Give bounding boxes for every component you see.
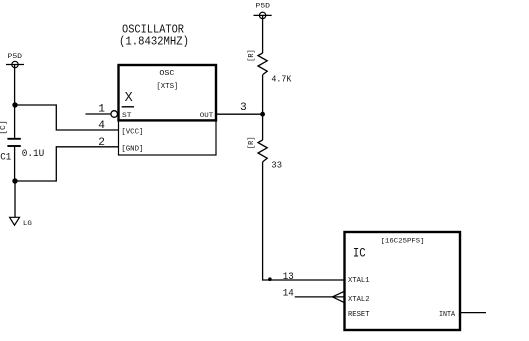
svg-text:RESET: RESET	[348, 311, 370, 319]
svg-text:X: X	[125, 91, 133, 106]
svg-text:XTAL1: XTAL1	[348, 277, 370, 285]
svg-text:C1: C1	[0, 152, 11, 164]
svg-text:(1.8432MHZ): (1.8432MHZ)	[119, 35, 189, 49]
svg-text:OUT: OUT	[200, 112, 213, 119]
svg-text:[XTS]: [XTS]	[156, 83, 178, 91]
svg-text:[R]: [R]	[248, 49, 256, 62]
svg-text:[GND]: [GND]	[121, 146, 143, 154]
resistor R 33	[258, 140, 267, 162]
svg-text:[VCC]: [VCC]	[121, 128, 143, 136]
svg-text:IC: IC	[353, 246, 366, 261]
power P5D (left)	[6, 53, 24, 68]
wire junction to pin 2 (GND)	[15, 147, 118, 181]
svg-text:13: 13	[283, 272, 294, 283]
wire P5D to C1 top	[14, 65, 16, 139]
svg-text:3: 3	[240, 102, 247, 114]
svg-text:P5D: P5D	[256, 3, 271, 11]
wire junction to pin 4 (VCC)	[15, 105, 118, 130]
wire R1 to node 3	[262, 75, 264, 140]
svg-text:4.7K: 4.7K	[271, 73, 291, 84]
svg-text:0.1U: 0.1U	[22, 148, 45, 160]
svg-text:[C]: [C]	[0, 120, 8, 135]
wire junction to ground	[14, 181, 16, 217]
svg-text:INTA: INTA	[439, 311, 455, 319]
wire C1 bottom to junction	[14, 146, 16, 181]
IC body [16C25PFS]	[345, 232, 461, 330]
pin 1 stub with bubble (ST)	[86, 111, 118, 118]
svg-text:OSC: OSC	[159, 70, 174, 78]
svg-text:4: 4	[98, 120, 105, 132]
svg-text:[16C25PFS]: [16C25PFS]	[381, 237, 425, 244]
wire INTA stub	[460, 312, 486, 314]
node dot near pin 13	[268, 277, 272, 281]
svg-text:[R]: [R]	[248, 137, 256, 150]
refdes X	[122, 91, 134, 107]
wire P5D to R1	[262, 15, 264, 53]
power P5D (right)	[254, 3, 272, 19]
svg-text:XTAL2: XTAL2	[348, 296, 370, 304]
svg-text:ST: ST	[122, 112, 132, 119]
title label OSCILLATOR (1.8432MHZ)	[119, 23, 189, 49]
capacitor C1	[7, 139, 20, 146]
resistor R 4.7K	[258, 53, 267, 75]
node junction left-top	[12, 102, 17, 107]
svg-text:LG: LG	[23, 220, 32, 227]
node 3 junction	[260, 112, 265, 117]
wire pin 3 (OUT) to node	[216, 113, 263, 115]
svg-text:14: 14	[283, 289, 294, 300]
svg-text:2: 2	[98, 137, 105, 149]
node junction left-bottom	[12, 178, 17, 183]
oscillator X (OSC) body	[119, 65, 217, 155]
svg-text:33: 33	[271, 160, 282, 171]
input arrow XTAL2	[332, 291, 344, 302]
svg-text:P5D: P5D	[8, 53, 23, 61]
ground LG	[10, 217, 32, 227]
svg-text:1: 1	[98, 103, 105, 115]
wire pin 14 stub	[295, 296, 345, 298]
wire R2 to XTAL1 (pin 13)	[263, 162, 345, 280]
